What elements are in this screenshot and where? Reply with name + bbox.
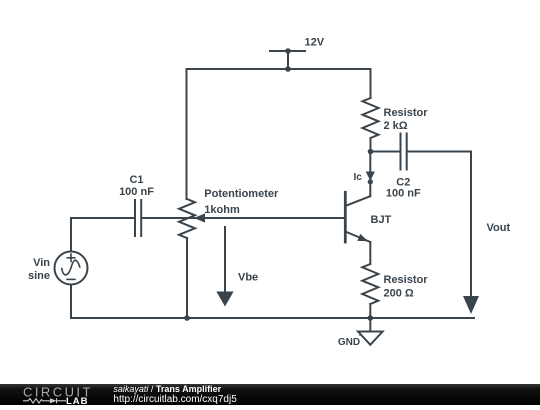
svg-text:Resistor: Resistor <box>384 274 429 286</box>
annotation arrow Vout head <box>463 296 479 314</box>
capacitor C1 plate right <box>140 200 142 236</box>
svg-text:Vin: Vin <box>33 257 50 269</box>
wire bottom rail <box>71 317 474 319</box>
svg-text:100 nF: 100 nF <box>386 187 421 199</box>
transistor Q1 emitter arrowhead <box>357 234 368 241</box>
wire collector vertical <box>369 152 371 197</box>
wire Vin bottom <box>70 285 72 319</box>
wire left vertical to potentiometer <box>186 69 188 199</box>
svg-text:12V: 12V <box>305 37 325 49</box>
wire C2 to Vout corner <box>408 151 471 153</box>
ground triangle <box>358 332 383 345</box>
svg-text:1kohm: 1kohm <box>204 204 240 216</box>
resistor R1 top lead <box>370 69 372 98</box>
capacitor C1 plate left <box>134 200 136 236</box>
resistor R1 bottom lead <box>370 138 372 152</box>
svg-text:C1: C1 <box>129 174 143 186</box>
transistor Q1 collector lead <box>345 196 370 206</box>
wire top rail <box>187 68 371 70</box>
ground lead <box>369 318 371 332</box>
annotation arrow Vbe line <box>224 227 226 292</box>
node dot 12V bar <box>285 48 291 54</box>
node dot top rail <box>285 66 291 72</box>
svg-text:LAB: LAB <box>66 396 89 405</box>
node dot potentiometer bottom <box>184 315 190 321</box>
svg-text:`: ` <box>359 336 361 342</box>
source V1 circle <box>55 252 88 285</box>
svg-text:Potentiometer: Potentiometer <box>204 188 279 200</box>
capacitor C2 plate right <box>406 134 408 170</box>
logo diode triangle <box>50 398 57 403</box>
svg-text:BJT: BJT <box>371 214 392 226</box>
resistor R1 zigzag <box>363 98 379 138</box>
capacitor C2 plate left <box>400 134 402 170</box>
wire emitter vertical <box>369 242 371 264</box>
potentiometer R2 zigzag <box>179 199 195 238</box>
potentiometer wiper arrowhead <box>194 213 205 222</box>
svg-text:http://circuitlab.com/cxq7dj5: http://circuitlab.com/cxq7dj5 <box>113 394 237 405</box>
transistor Q1 emitter lead <box>345 232 370 243</box>
wire base / wiper horizontal <box>142 217 345 219</box>
annotation arrow Vbe head <box>216 292 233 307</box>
svg-text:Resistor: Resistor <box>384 107 429 119</box>
source V1 minus sign <box>67 278 75 280</box>
current arrow Ic tail dot <box>368 179 373 184</box>
current arrow Ic head <box>366 172 375 181</box>
svg-text:200 Ω: 200 Ω <box>384 288 414 300</box>
svg-text:100 nF: 100 nF <box>119 186 154 198</box>
wire node to C2 <box>371 151 400 153</box>
source V1 plus sign <box>67 254 74 261</box>
node dot emitter resistor bottom <box>368 315 374 321</box>
svg-text:Vbe: Vbe <box>238 272 258 284</box>
svg-text:Vout: Vout <box>487 222 511 234</box>
transistor Q1 base bar <box>344 192 347 242</box>
resistor R3 zigzag <box>362 264 378 304</box>
wire 12V drop <box>287 51 289 69</box>
wire potentiometer bottom lead <box>186 238 188 318</box>
svg-text:GND: GND <box>338 337 360 348</box>
svg-text:Ic: Ic <box>354 172 363 183</box>
logo squiggle resistor-diode <box>23 398 66 403</box>
svg-text:2 kΩ: 2 kΩ <box>384 120 408 132</box>
power supply 12V bar <box>270 50 305 52</box>
wire Vin top <box>70 218 72 252</box>
node dot collector junction <box>368 149 374 155</box>
wire Vin to C1 <box>71 217 134 219</box>
resistor R3 bottom lead <box>369 304 371 318</box>
svg-text:saikayati / Trans Amplifier: saikayati / Trans Amplifier <box>113 384 221 394</box>
source V1 sine wave <box>62 260 80 275</box>
wire Vout vertical annotation <box>470 152 472 298</box>
svg-text:sine: sine <box>28 270 50 282</box>
